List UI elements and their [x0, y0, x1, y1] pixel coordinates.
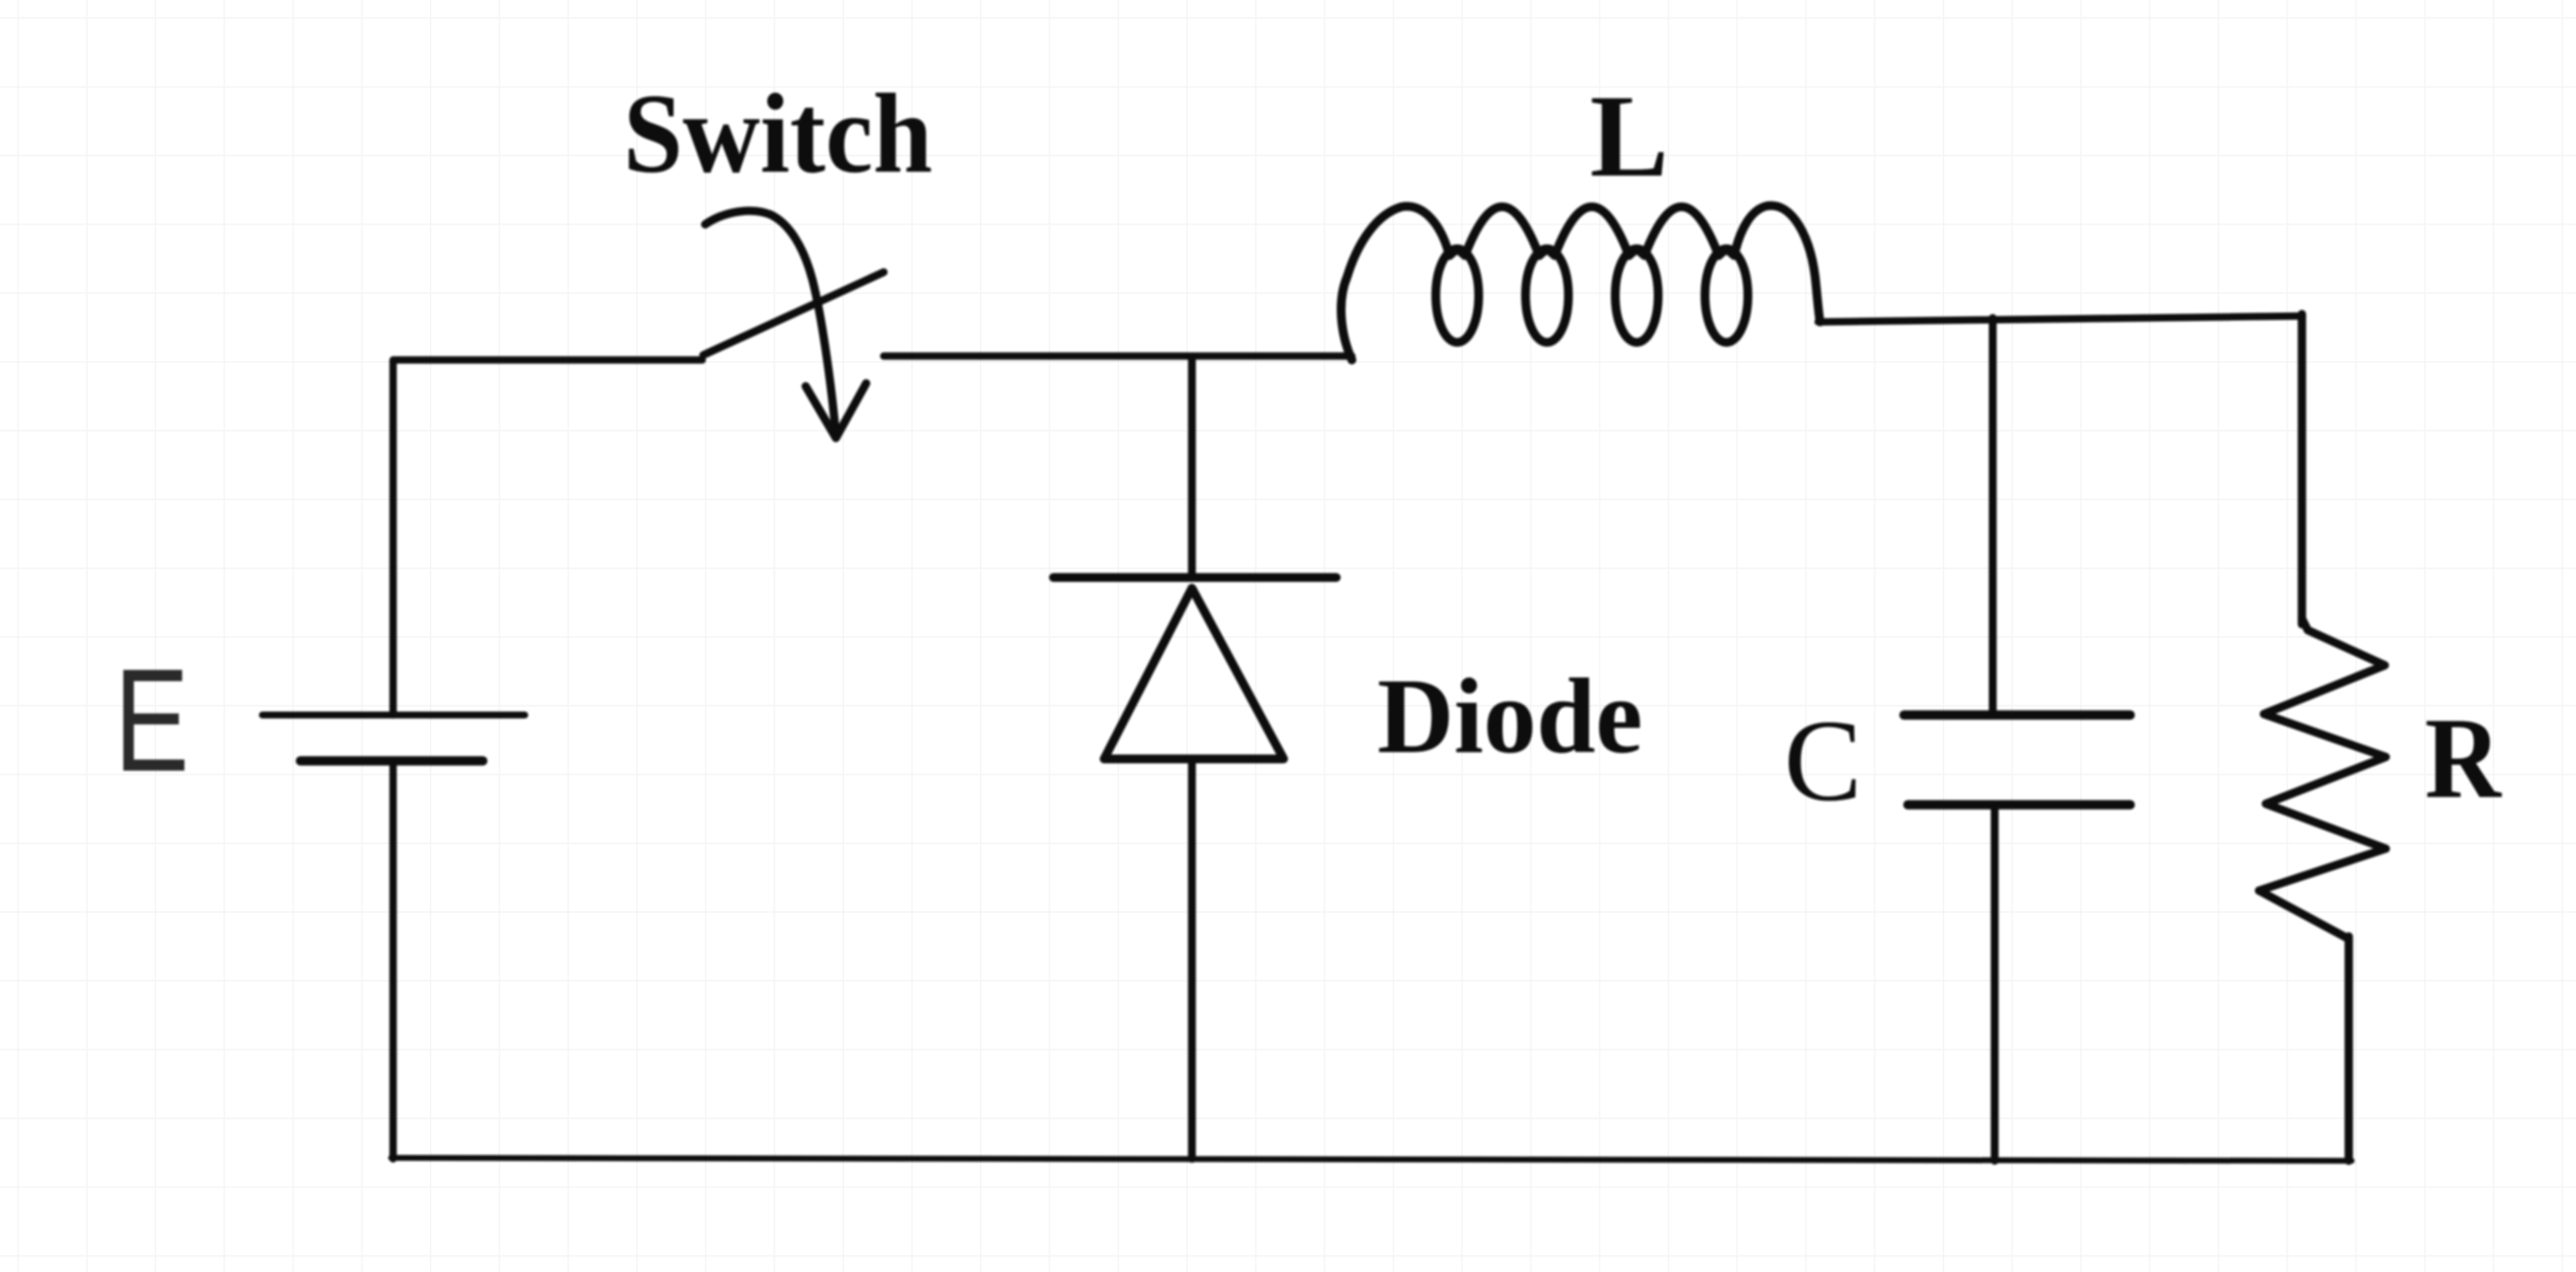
switch actuator curve with arrowhead [705, 211, 866, 438]
wire: battery + terminal up left side and across to switch left contact [393, 360, 702, 715]
svg-text:R: R [2425, 694, 2502, 822]
bottom rail wire [391, 1158, 2352, 1161]
wire: resistor bottom to rail [2345, 936, 2354, 1161]
svg-text:Diode: Diode [1377, 656, 1643, 775]
wire: battery - terminal to bottom rail [389, 761, 397, 1159]
wire: capacitor branch from top wire [1989, 318, 1997, 711]
wire: inductor to top-right corner [1818, 316, 2302, 322]
diode branch wire from top node [1188, 357, 1196, 577]
svg-text:C: C [1784, 696, 1862, 825]
capacitor C bottom plate [1908, 800, 2130, 810]
switch blade [703, 272, 884, 355]
battery E top plate (positive, long) [262, 712, 525, 719]
svg-text:Switch: Switch [623, 71, 932, 197]
wire: switch right contact to diode node and on to inductor [884, 352, 1352, 360]
capacitor C top plate [1904, 710, 2130, 720]
resistor R zigzag [2259, 618, 2386, 938]
wire: capacitor to bottom rail [1991, 805, 1999, 1161]
wire: diode anode to bottom rail [1188, 759, 1196, 1159]
inductor L coil [1341, 206, 1820, 360]
svg-text:E: E [114, 638, 189, 802]
diode triangle (anode, pointing up) [1104, 588, 1284, 759]
battery E bottom plate (negative, short) [300, 756, 483, 766]
svg-text:L: L [1590, 71, 1669, 202]
diode cathode bar [1053, 574, 1336, 582]
wire: top-right corner down to resistor top [2298, 314, 2307, 624]
